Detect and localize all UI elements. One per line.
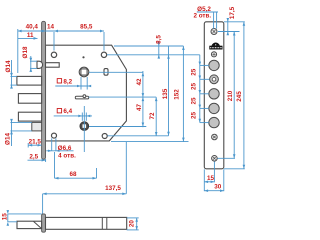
- svg-text:25: 25: [190, 112, 197, 120]
- svg-text:25: 25: [190, 68, 197, 76]
- dim 20 side: [127, 218, 139, 230]
- plate top ext: [224, 21, 245, 23]
- label square 8,2: [57, 78, 72, 85]
- svg-text:14: 14: [47, 23, 55, 30]
- svg-text:8,2: 8,2: [63, 78, 72, 85]
- deadbolt 4 (retracted): [32, 122, 42, 130]
- svg-text:11: 11: [27, 32, 34, 39]
- dim O14 upper: [10, 60, 17, 89]
- svg-text:47: 47: [136, 104, 143, 112]
- ext line hole1: [53, 32, 55, 51]
- deadbolt 1: [17, 76, 42, 85]
- dim line 8,5: [158, 42, 161, 59]
- case top line: [114, 45, 183, 47]
- leader O5,2: [197, 12, 218, 29]
- svg-text:Ø14: Ø14: [5, 133, 12, 145]
- dim 17,5: [227, 18, 230, 35]
- dim 15 bottom: [204, 162, 224, 192]
- svg-text:6,4: 6,4: [63, 108, 72, 115]
- leader 8,2: [55, 77, 91, 90]
- svg-text:40,4: 40,4: [26, 23, 39, 30]
- screw2 ext: [218, 157, 236, 159]
- case bottom line: [111, 141, 189, 143]
- dim 68: [55, 152, 97, 180]
- dim 30 bottom: [204, 189, 224, 192]
- mounting hole top-right: [101, 52, 106, 57]
- dim line 72: [155, 97, 158, 136]
- svg-text:Ø14: Ø14: [5, 60, 12, 72]
- dim 11: [18, 37, 38, 40]
- logo: [209, 43, 222, 50]
- side view case bar: [46, 217, 127, 229]
- latch bolt body: [46, 63, 60, 67]
- dim 21,5: [28, 143, 41, 148]
- plate bottom ext: [224, 168, 245, 170]
- mounting hole top-left: [51, 52, 56, 57]
- dim O18: [29, 56, 37, 72]
- hole top line: [107, 54, 200, 56]
- dim 137,5: [43, 142, 127, 214]
- label square 6,4: [57, 108, 72, 115]
- hole 3: [209, 103, 219, 113]
- latch bolt D-head: [37, 61, 43, 68]
- hole bottom line: [108, 135, 169, 137]
- follower square 6,4 (dark): [80, 122, 89, 131]
- svg-text:25: 25: [190, 83, 197, 91]
- deadbolt 2: [18, 94, 41, 104]
- svg-text:15: 15: [2, 213, 9, 221]
- svg-text:210: 210: [227, 90, 234, 101]
- svg-text:17,5: 17,5: [229, 6, 236, 19]
- svg-text:85,5: 85,5: [80, 23, 93, 30]
- svg-text:42: 42: [136, 78, 143, 86]
- dim line 42/47: [142, 71, 145, 127]
- svg-text:2,5: 2,5: [29, 154, 38, 161]
- follower square 8,2: [79, 67, 89, 77]
- dim line 135: [167, 46, 170, 136]
- ladder 25 dims: [199, 55, 210, 123]
- side view bolt: [17, 221, 42, 228]
- mounting hole bottom-left: [52, 133, 57, 138]
- svg-text:30: 30: [214, 184, 222, 191]
- svg-text:Ø6,6: Ø6,6: [58, 145, 72, 152]
- hole 2: [209, 89, 219, 99]
- deadbolt 3: [18, 112, 41, 121]
- side view seam: [101, 217, 103, 229]
- side view faceplate bar: [42, 214, 46, 232]
- svg-text:2 отв.: 2 отв.: [193, 13, 211, 20]
- mounting hole bottom-right: [102, 134, 107, 139]
- follower2 line: [89, 126, 146, 128]
- svg-text:8,5: 8,5: [155, 35, 162, 44]
- svg-text:152: 152: [174, 89, 181, 100]
- centerline follower2: [83, 106, 85, 152]
- key lever: [75, 95, 88, 99]
- svg-text:135: 135: [162, 88, 169, 99]
- faceplate view outline: [204, 22, 224, 169]
- dim O14 lower: [10, 119, 32, 146]
- svg-text:21,5: 21,5: [29, 139, 42, 146]
- screw hole c: [212, 156, 218, 162]
- screw hole b: [212, 134, 218, 140]
- dim line 245: [243, 22, 246, 169]
- svg-text:25: 25: [190, 97, 197, 105]
- lever line: [89, 96, 157, 98]
- leader O6,6 4 otv: [46, 138, 73, 152]
- main view: lock case body: [46, 45, 127, 141]
- leader 6,4: [54, 113, 92, 121]
- svg-text:20: 20: [128, 220, 135, 228]
- svg-text:15: 15: [207, 175, 215, 182]
- faceplate bar (plan view): [42, 21, 46, 159]
- dim 40,4 / 14 / 85,5 top line: [18, 30, 104, 33]
- ext line hole2: [103, 32, 105, 51]
- slot: [104, 69, 108, 76]
- hole 4: [209, 117, 219, 127]
- dim 15 side: [7, 210, 42, 226]
- svg-text:Ø18: Ø18: [22, 46, 29, 58]
- hole 1: [209, 60, 219, 70]
- screw hole top O5,2: [211, 29, 217, 35]
- svg-text:4 отв.: 4 отв.: [58, 153, 76, 160]
- dim line 210: [233, 32, 236, 159]
- dim 2,5: [28, 159, 46, 162]
- svg-text:137,5: 137,5: [105, 185, 121, 192]
- svg-text:72: 72: [149, 112, 156, 120]
- hole ring: [210, 75, 219, 84]
- svg-text:245: 245: [236, 91, 243, 102]
- small pin hole: [82, 56, 84, 58]
- ext line bolt tip: [17, 29, 19, 73]
- svg-text:68: 68: [69, 171, 77, 178]
- screw hole a: [211, 52, 216, 57]
- screw1 ext: [218, 31, 240, 33]
- follower1 line: [89, 71, 143, 73]
- dim line 152: [182, 46, 185, 142]
